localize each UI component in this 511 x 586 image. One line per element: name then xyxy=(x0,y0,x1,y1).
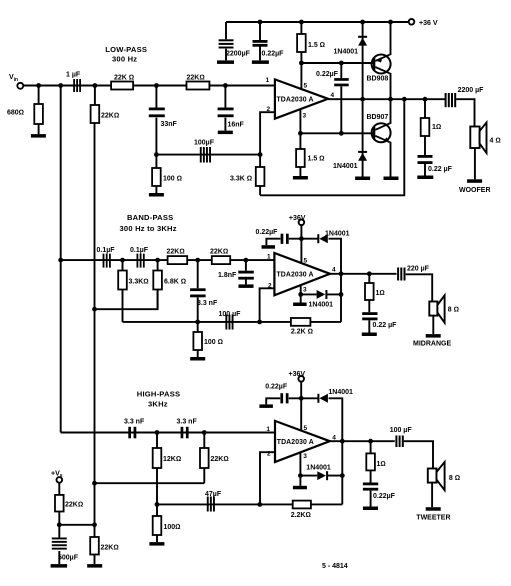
wire vertical signal bus x=60.7 xyxy=(60,86,62,433)
capacitor 1.8nF band-pass xyxy=(218,260,254,284)
svg-text:0.1µF: 0.1µF xyxy=(97,247,116,254)
capacitor 3.3nF high-pass C2 xyxy=(177,419,198,439)
node dot zobel tweeter xyxy=(368,439,373,444)
wire feedback band-pass bottom y=321.9 xyxy=(123,274,342,322)
terminal +Vs bias xyxy=(51,471,63,483)
svg-text:3.3 nF: 3.3 nF xyxy=(197,300,218,307)
svg-text:3: 3 xyxy=(303,113,307,120)
capacitor 100uF band-pass feedback xyxy=(219,311,242,330)
node dots high-pass feedback xyxy=(155,502,263,507)
ground for 100 Ohm xyxy=(149,193,164,197)
wire output vertical x=342.3 xyxy=(341,441,343,504)
resistor 100 Ohm feedback xyxy=(152,155,182,193)
svg-text:TWEETER: TWEETER xyxy=(416,515,450,522)
svg-text:+36V: +36V xyxy=(289,371,306,378)
input terminal Vin xyxy=(9,74,23,89)
svg-text:12KΩ: 12KΩ xyxy=(163,456,181,463)
transistor Q2 BD907 xyxy=(367,114,391,142)
capacitor 16nF xyxy=(218,86,245,131)
terminal +36V high-pass xyxy=(289,371,306,398)
wire BD908 collector to output xyxy=(389,73,390,99)
resistor 6.8K band-pass xyxy=(153,260,186,309)
node dots drive rails xyxy=(298,61,427,136)
wire bias node y=524.8 xyxy=(59,524,94,526)
ground for 0.22uF band-pass xyxy=(262,245,276,249)
svg-text:1N4001: 1N4001 xyxy=(334,49,359,56)
capacitor 0.22uF decoupling high-pass xyxy=(265,384,301,405)
ground for 16nF xyxy=(218,131,233,135)
svg-text:TDA2030 A: TDA2030 A xyxy=(277,271,314,278)
svg-text:0.22µF: 0.22µF xyxy=(316,71,339,78)
svg-text:BD908: BD908 xyxy=(367,76,389,83)
node dots band-pass feedback xyxy=(195,236,343,324)
svg-text:4 Ω: 4 Ω xyxy=(490,138,501,145)
wire to woofer xyxy=(456,99,474,126)
wire pin2 to feedback node xyxy=(260,112,275,154)
svg-text:TDA2030 A: TDA2030 A xyxy=(277,96,314,103)
capacitor 500uF bias xyxy=(52,525,79,564)
svg-text:500µF: 500µF xyxy=(58,555,79,562)
svg-text:5: 5 xyxy=(304,83,308,90)
capacitor 33nF xyxy=(149,86,178,155)
capacitor 220uF output midrange xyxy=(397,266,430,281)
svg-text:0.22µF: 0.22µF xyxy=(373,493,396,500)
svg-text:22KΩ: 22KΩ xyxy=(101,113,119,120)
diode 1N4001 band-pass top xyxy=(301,231,349,274)
speaker midrange xyxy=(429,295,459,322)
wire 6.8K to bias bus y=309.2 xyxy=(95,290,158,310)
ground for 0.22uF high-pass xyxy=(259,404,273,408)
svg-text:2200 µF: 2200 µF xyxy=(458,87,485,94)
wire woofer to ground xyxy=(474,148,476,179)
diode 1N4001 band-pass bottom xyxy=(301,290,341,309)
svg-text:33nF: 33nF xyxy=(161,121,178,128)
svg-text:3KHz: 3KHz xyxy=(148,400,168,409)
speaker tweeter xyxy=(428,462,460,490)
resistor 3.3K band-pass xyxy=(118,260,148,322)
wire output band-pass y=273.8 xyxy=(330,273,397,275)
svg-text:1N4001: 1N4001 xyxy=(306,465,331,472)
resistor 1.5 Ohm top xyxy=(297,22,325,63)
svg-text:1: 1 xyxy=(266,426,270,433)
terminal +36V band-pass xyxy=(289,215,306,239)
wire pin5 high-pass xyxy=(300,398,302,430)
ground for BD907 emitter xyxy=(384,177,399,181)
resistor 1.5 Ohm bottom xyxy=(296,149,324,176)
svg-text:1: 1 xyxy=(266,77,270,84)
svg-text:2200µF: 2200µF xyxy=(226,51,251,58)
label BAND-PASS 300Hz to 3KHz xyxy=(120,213,177,233)
svg-text:3.3K Ω: 3.3K Ω xyxy=(230,176,252,183)
svg-text:1.5 Ω: 1.5 Ω xyxy=(308,156,325,163)
ground for 1.8nF xyxy=(239,284,254,288)
capacitor 0.22uF zobel midrange xyxy=(362,312,397,332)
svg-text:16nF: 16nF xyxy=(228,122,245,129)
ground for 2200uF xyxy=(217,60,234,64)
svg-text:0.1µF: 0.1µF xyxy=(130,247,149,254)
ground for 1N4001 bottom xyxy=(355,177,370,181)
resistor 3.3K feedback xyxy=(230,155,264,196)
wire bias bus x=94.5 xyxy=(94,86,96,525)
svg-text:22KΩ: 22KΩ xyxy=(210,249,228,256)
node dots on input wire xyxy=(36,83,228,88)
svg-text:100 Ω: 100 Ω xyxy=(163,176,182,183)
capacitor 2200uF supply xyxy=(219,22,251,60)
diode 1N4001 high-pass bottom xyxy=(300,465,342,481)
svg-text:HIGH-PASS: HIGH-PASS xyxy=(137,390,180,399)
svg-text:1Ω: 1Ω xyxy=(377,461,386,468)
svg-text:5: 5 xyxy=(304,258,308,265)
wire to tweeter xyxy=(404,441,433,468)
wire output pin4 y=99.2 xyxy=(328,98,446,100)
svg-text:47µF: 47µF xyxy=(205,491,222,498)
svg-text:1.8nF: 1.8nF xyxy=(218,272,237,279)
svg-text:0.22 µF: 0.22 µF xyxy=(428,166,453,173)
ground for pin3 band-pass xyxy=(293,294,307,306)
ground for 680 Ohm xyxy=(31,134,46,138)
svg-text:3.3KΩ: 3.3KΩ xyxy=(129,279,149,286)
svg-text:300 Hz: 300 Hz xyxy=(112,55,137,64)
ground for zobel midrange xyxy=(362,333,377,337)
ground for 0.22uF supply xyxy=(252,60,269,64)
resistor 22K high-pass xyxy=(200,433,229,484)
resistor 1 Ohm zobel tweeter xyxy=(366,441,385,482)
node dots feedback xyxy=(154,152,263,157)
node dot zobel midrange xyxy=(367,271,372,276)
wire band-pass branch y=260.1 xyxy=(61,259,275,261)
svg-text:0.22 µF: 0.22 µF xyxy=(373,322,398,329)
ground for 22K bias lower xyxy=(87,564,102,568)
svg-text:22KΩ: 22KΩ xyxy=(167,249,185,256)
resistor 2.2K band-pass xyxy=(291,318,313,336)
svg-text:220 µF: 220 µF xyxy=(407,266,430,273)
svg-text:WOOFER: WOOFER xyxy=(459,187,491,194)
svg-text:100 µF: 100 µF xyxy=(219,311,242,318)
resistor 22K low-pass R2 xyxy=(187,75,210,90)
wire main input y=85.5 xyxy=(24,85,275,87)
resistor 22K band-pass R2 xyxy=(210,249,230,265)
capacitor 100uF output tweeter xyxy=(390,427,413,447)
wire midrange to ground xyxy=(432,316,434,335)
capacitor 0.1uF band-pass C2 xyxy=(130,247,149,268)
ground for 100 Ohm band-pass xyxy=(190,357,205,361)
terminal +36V supply xyxy=(409,19,438,27)
resistor 22K bias upper xyxy=(55,483,83,525)
node dots high-pass op-amp xyxy=(298,396,345,478)
svg-text:22KΩ: 22KΩ xyxy=(211,456,229,463)
svg-text:BAND-PASS: BAND-PASS xyxy=(127,213,173,222)
svg-text:0.22µF: 0.22µF xyxy=(265,384,288,391)
resistor 22K bias lower xyxy=(90,525,119,564)
svg-text:2.2K Ω: 2.2K Ω xyxy=(291,329,313,336)
svg-text:1 µF: 1 µF xyxy=(66,72,81,79)
wire base drive bottom y=133.3 xyxy=(300,132,374,134)
wire pin3 down xyxy=(299,109,301,149)
svg-text:5: 5 xyxy=(304,425,308,432)
ground for zobel tweeter xyxy=(363,507,378,511)
svg-text:8 Ω: 8 Ω xyxy=(448,307,459,314)
svg-text:100 Ω: 100 Ω xyxy=(204,339,223,346)
svg-text:3: 3 xyxy=(303,453,307,460)
resistor 100 Ohm band-pass xyxy=(193,322,223,357)
wire tweeter to ground xyxy=(431,483,433,508)
svg-text:BD907: BD907 xyxy=(367,114,389,121)
op-amp U2 TDA2030A band-pass xyxy=(267,253,336,295)
svg-text:100µF: 100µF xyxy=(194,140,215,147)
svg-text:4: 4 xyxy=(332,267,336,274)
wire output high-pass y=441.2 xyxy=(330,440,395,442)
svg-text:1Ω: 1Ω xyxy=(432,124,441,131)
transistor Q1 BD908 xyxy=(367,55,391,83)
resistor 22K band-pass R1 xyxy=(167,249,188,265)
ground for 100 Ohm high-pass xyxy=(149,542,164,546)
svg-text:22KΩ: 22KΩ xyxy=(65,502,83,509)
svg-text:1: 1 xyxy=(267,254,271,261)
resistor 22K low-pass R1 xyxy=(111,75,134,90)
ground for 1.5 Ohm bottom xyxy=(293,176,308,180)
svg-text:6.8K Ω: 6.8K Ω xyxy=(164,279,186,286)
label LOW-PASS 300 Hz xyxy=(105,45,147,64)
svg-text:TDA2030 A: TDA2030 A xyxy=(277,439,314,446)
node dots band-pass input xyxy=(58,258,248,312)
capacitor 100uF feedback xyxy=(194,140,215,163)
wire pin2 high-pass xyxy=(260,452,275,504)
capacitor 0.22uF between drive rails xyxy=(316,63,349,133)
wire feedback bottom loop xyxy=(260,99,404,195)
svg-text:2: 2 xyxy=(267,106,271,113)
wire to midrange xyxy=(406,274,433,301)
wire +36V rail y=22 xyxy=(226,21,409,23)
capacitor 0.22uF decoupling band-pass xyxy=(256,229,302,245)
svg-text:100Ω: 100Ω xyxy=(164,524,181,531)
svg-text:MIDRANGE: MIDRANGE xyxy=(413,341,451,348)
svg-text:+36 V: +36 V xyxy=(419,20,438,27)
svg-text:300 Hz to 3KHz: 300 Hz to 3KHz xyxy=(120,224,177,233)
svg-text:22KΩ: 22KΩ xyxy=(187,75,205,82)
svg-text:8 Ω: 8 Ω xyxy=(449,475,460,482)
svg-text:1N4001: 1N4001 xyxy=(333,163,358,170)
wire pin5 band-pass xyxy=(300,239,302,264)
wire BD908 emitter to rail xyxy=(389,22,390,55)
label HIGH-PASS 3KHz xyxy=(137,390,180,409)
speaker woofer xyxy=(470,123,500,154)
ground for tweeter xyxy=(426,507,441,511)
node dots high-pass input xyxy=(92,430,207,486)
ground for midrange xyxy=(426,334,441,338)
svg-text:0.22µF: 0.22µF xyxy=(262,51,285,58)
node dots rail xyxy=(258,20,393,25)
capacitor 1uF input coupling xyxy=(66,72,81,93)
svg-text:1.5 Ω: 1.5 Ω xyxy=(308,42,325,49)
resistor 12K high-pass xyxy=(153,433,182,505)
svg-text:5 - 4814: 5 - 4814 xyxy=(322,563,348,570)
wire pin3 high-pass xyxy=(299,453,301,476)
ground for woofer xyxy=(467,179,482,183)
ground for 500uF xyxy=(51,564,68,568)
wire feedback node y=154.6 xyxy=(156,154,260,156)
resistor 680 Ohm input load xyxy=(7,86,43,135)
capacitor 0.22uF supply xyxy=(253,22,285,60)
op-amp U1 TDA2030A low-pass xyxy=(266,77,335,120)
svg-text:3.3 nF: 3.3 nF xyxy=(177,419,198,426)
svg-text:22KΩ: 22KΩ xyxy=(101,545,119,552)
capacitor 3.3nF band-pass xyxy=(190,260,218,322)
resistor 100 Ohm high-pass xyxy=(153,504,181,542)
diode 1N4001 bottom xyxy=(333,99,367,176)
resistor 2.2K high-pass xyxy=(291,501,311,519)
ground for pin3 high-pass xyxy=(293,476,307,490)
wire pin5 supply xyxy=(300,63,302,90)
wire pin3 band-pass xyxy=(300,285,302,294)
svg-text:3.3 nF: 3.3 nF xyxy=(124,419,145,426)
wire BD907 emitter to ground xyxy=(389,142,390,177)
node dots bias xyxy=(57,522,97,527)
ground for zobel woofer xyxy=(417,176,433,180)
resistor 22K bias to input xyxy=(91,105,120,123)
svg-text:1N4001: 1N4001 xyxy=(328,389,353,396)
capacitor 0.22uF zobel tweeter xyxy=(363,483,396,507)
svg-text:0.22µF: 0.22µF xyxy=(256,229,279,236)
svg-text:1N4001: 1N4001 xyxy=(325,231,350,238)
svg-text:680Ω: 680Ω xyxy=(7,110,24,117)
wire BD907 collector to output xyxy=(389,99,390,123)
svg-text:LOW-PASS: LOW-PASS xyxy=(105,45,147,54)
svg-text:+36V: +36V xyxy=(289,215,306,222)
diode 1N4001 top xyxy=(334,22,368,99)
capacitor 2200uF output woofer xyxy=(445,87,485,107)
capacitor 0.22uF zobel woofer xyxy=(418,155,453,176)
svg-text:100 µF: 100 µF xyxy=(390,427,413,434)
svg-text:1N4001: 1N4001 xyxy=(309,302,334,309)
capacitor 3.3nF high-pass C1 xyxy=(124,419,145,439)
svg-text:4: 4 xyxy=(331,92,335,99)
diode 1N4001 high-pass top xyxy=(301,389,353,441)
op-amp U3 TDA2030A high-pass xyxy=(266,421,336,462)
capacitor 47uF high-pass feedback xyxy=(205,491,222,512)
svg-text:1Ω: 1Ω xyxy=(376,290,385,297)
wire bias to 22K high-pass y=483.2 xyxy=(95,482,205,484)
capacitor 0.1uF band-pass C1 xyxy=(97,247,116,268)
svg-text:2.2KΩ: 2.2KΩ xyxy=(291,512,311,519)
wire pin2 band-pass xyxy=(260,288,275,322)
wire base drive top y=63 xyxy=(301,62,374,64)
wire high-pass branch y=432.5 xyxy=(61,432,275,434)
resistor 1 Ohm zobel woofer xyxy=(421,99,442,155)
svg-text:22K Ω: 22K Ω xyxy=(114,75,134,82)
svg-text:3: 3 xyxy=(303,287,307,294)
resistor 1 Ohm zobel midrange xyxy=(365,274,385,312)
wire high-pass feedback y=504.4 xyxy=(157,503,342,505)
